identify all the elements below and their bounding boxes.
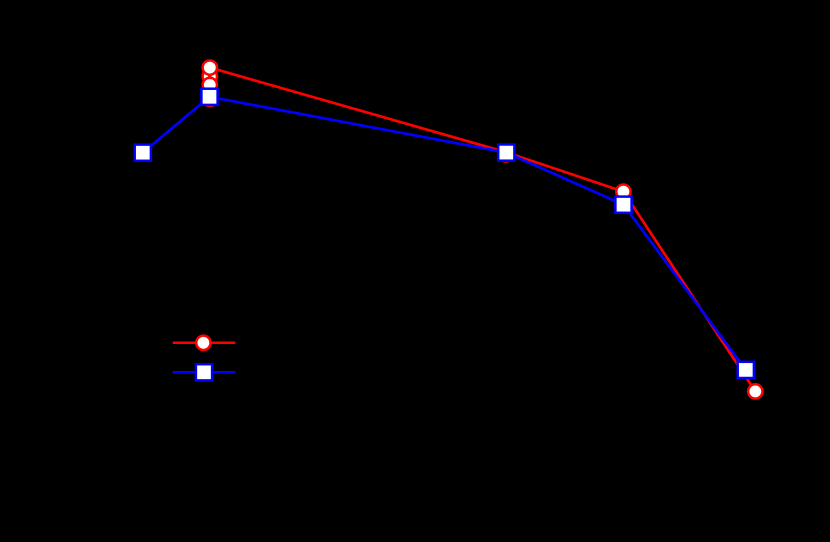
legend red line sample (173, 342, 236, 345)
red marker point 6 (616, 184, 630, 198)
blue marker point 4 (615, 197, 631, 213)
legend blue line sample (173, 371, 236, 374)
blue marker point 1 (135, 145, 151, 161)
red series line (210, 68, 756, 392)
red marker point 5 (mostly hidden behind square) (499, 147, 513, 161)
red marker point 4 (top of stack) (203, 60, 217, 74)
blue series line (143, 97, 746, 370)
red marker point 7 (748, 384, 762, 398)
blue marker point 5 (738, 362, 754, 378)
legend red circle marker (196, 336, 210, 350)
red marker point 1 (hidden behind square) (203, 92, 217, 106)
red line segment (vertical joint between stacked markers) (208, 74, 211, 79)
red marker point 2 (203, 69, 217, 83)
legend blue square marker (196, 364, 212, 380)
blue marker point 3 (498, 145, 514, 161)
red marker point 3 (203, 78, 217, 92)
blue marker point 2 (201, 89, 217, 105)
